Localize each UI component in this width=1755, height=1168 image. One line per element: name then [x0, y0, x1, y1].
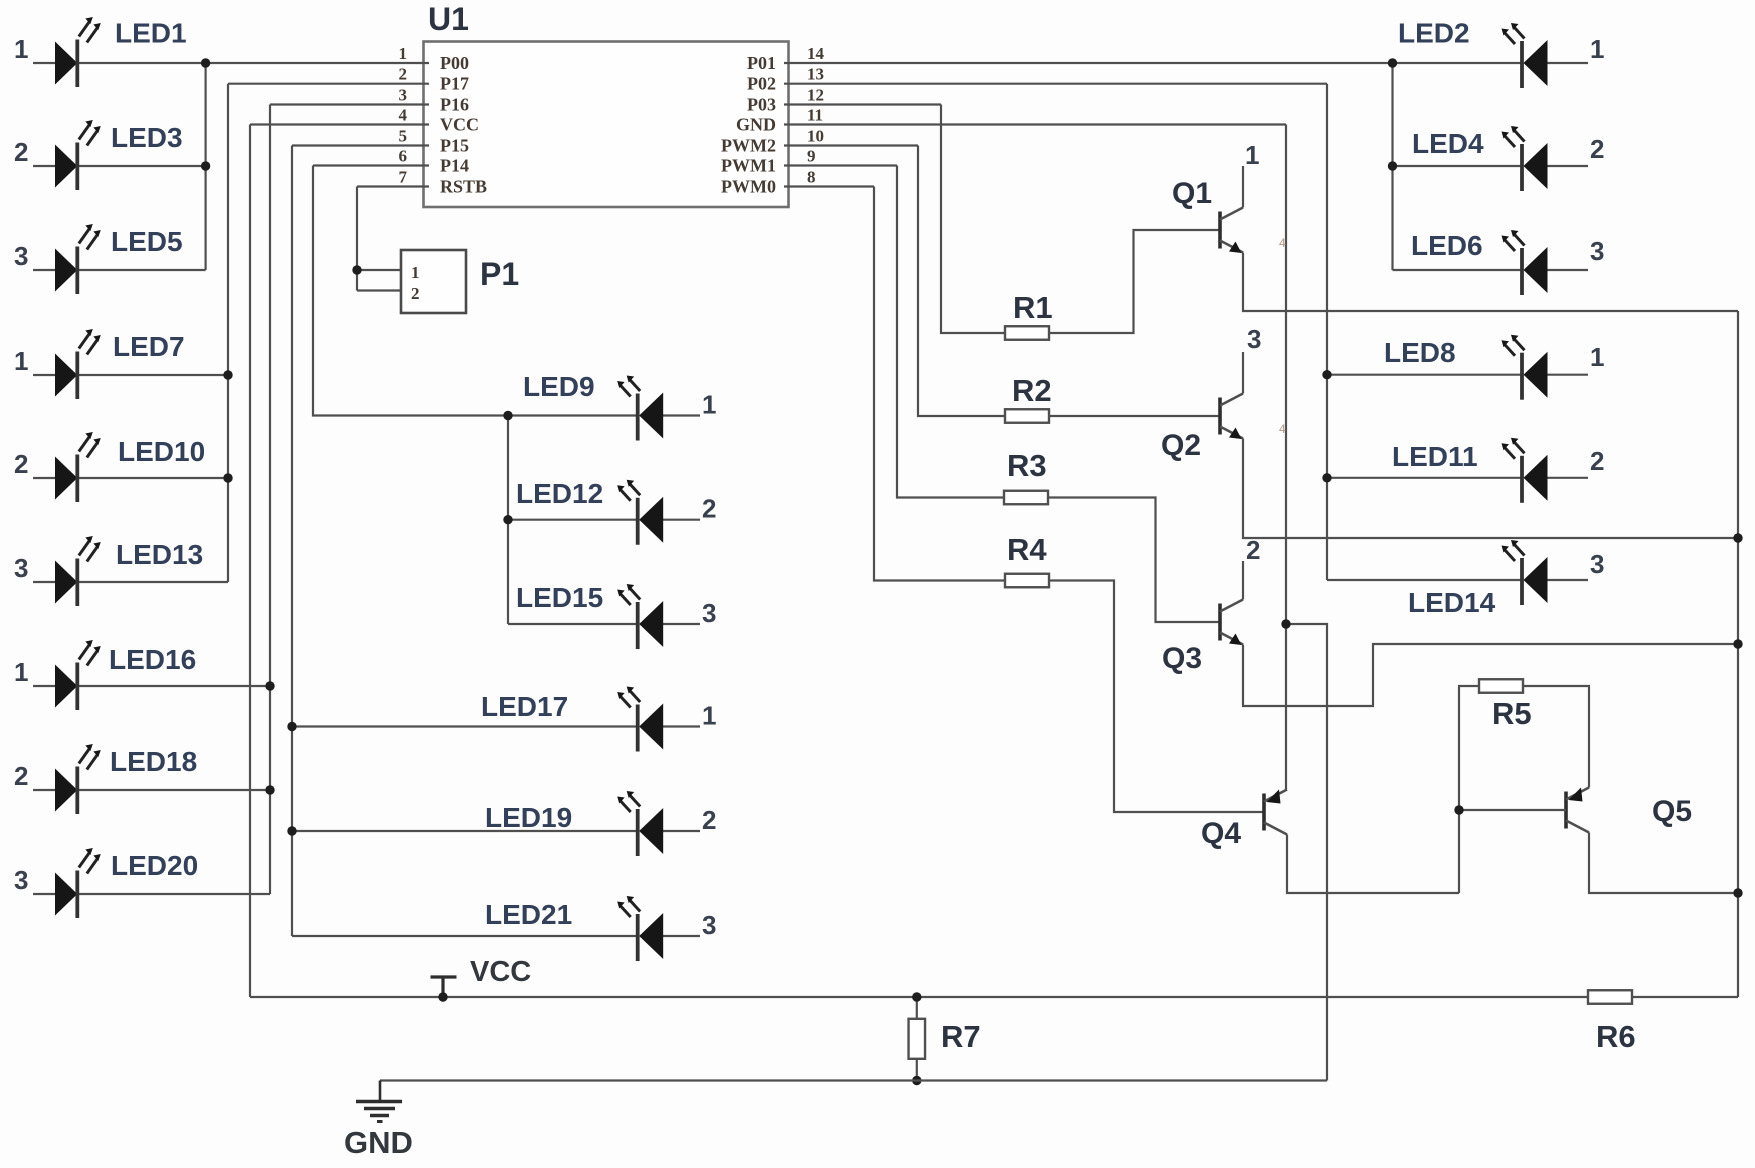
- wire LED16 anode lead: [33, 685, 55, 687]
- wire LED4 cathode from bus: [1393, 165, 1523, 167]
- svg-text:R6: R6: [1596, 1019, 1636, 1054]
- svg-text:9: 9: [807, 147, 816, 166]
- wire right rail vertical: [1737, 311, 1739, 997]
- svg-text:R2: R2: [1012, 373, 1052, 408]
- svg-text:P17: P17: [440, 74, 469, 94]
- svg-text:P00: P00: [440, 53, 469, 73]
- svg-text:P15: P15: [440, 136, 469, 156]
- svg-text:LED5: LED5: [111, 226, 183, 257]
- svg-text:8: 8: [807, 168, 816, 187]
- ground symbol GND: [356, 1081, 402, 1122]
- svg-text:5: 5: [399, 127, 408, 146]
- wire U1 pin6 P14 stub: [313, 164, 429, 166]
- wire U1 pin7 RSTB stub: [357, 185, 429, 187]
- wire Q3 emitter down right up right to rail: [1243, 644, 1738, 706]
- wire LED1 anode lead: [33, 62, 55, 64]
- wire LED13 cathode to bus: [77, 581, 228, 583]
- LED LED9 (left-pointing diode with rays): [617, 376, 663, 441]
- wire LED3 anode lead: [33, 165, 55, 167]
- wire LED2 cathode from bus: [1393, 62, 1523, 64]
- wire Q4 collector down and right to Q5 base node: [1287, 835, 1459, 894]
- svg-text:3: 3: [702, 910, 716, 940]
- LED LED20 (right-pointing diode with rays): [55, 848, 101, 918]
- LED LED6 (left-pointing diode with rays): [1502, 230, 1548, 295]
- wire LED15 cathode from bus: [508, 623, 638, 625]
- wire Q1 emitter down and right to right rail: [1243, 253, 1738, 312]
- LED LED2 (left-pointing diode with rays): [1502, 23, 1548, 88]
- wire LED7 anode lead: [33, 374, 55, 376]
- wire LED6 anode lead: [1548, 269, 1589, 271]
- wire U1 pin1 P00 stub to LED1 junction: [206, 62, 429, 64]
- svg-text:R7: R7: [941, 1019, 981, 1054]
- svg-text:PWM2: PWM2: [721, 136, 776, 156]
- resistor R5 body: [1479, 679, 1523, 693]
- resistor R6 body: [1588, 990, 1632, 1004]
- svg-text:R4: R4: [1007, 532, 1047, 567]
- resistor R7 body (vertical): [909, 1019, 926, 1059]
- LED LED11 (left-pointing diode with rays): [1502, 438, 1548, 503]
- svg-text:1: 1: [14, 346, 28, 376]
- wire RSTB bus down to P1: [356, 187, 358, 291]
- wire LED7 cathode to bus: [77, 374, 228, 376]
- wire PWM2 bus down to R2 left: [918, 146, 1005, 417]
- svg-text:P14: P14: [440, 156, 469, 176]
- wire R7 bottom lead: [916, 1059, 918, 1081]
- wire LED12 anode lead: [663, 519, 700, 521]
- svg-text:P01: P01: [747, 53, 776, 73]
- svg-text:LED6: LED6: [1411, 230, 1483, 261]
- junction LED12/bus: [503, 515, 512, 524]
- wire LED2 anode lead: [1548, 62, 1589, 64]
- svg-text:2: 2: [1590, 446, 1604, 476]
- svg-text:P03: P03: [747, 95, 776, 115]
- wire LED20 cathode to bus: [77, 893, 270, 895]
- wire LED8 anode lead: [1548, 374, 1589, 376]
- wire R4 right to Q4 base: [1049, 581, 1264, 813]
- junction Q5 base / R5 node: [1454, 805, 1463, 814]
- svg-text:Q2: Q2: [1161, 429, 1201, 462]
- wire Q1 collector up to terminal 1: [1242, 166, 1244, 208]
- wire PWM0 bus down to R4 left: [874, 187, 1005, 581]
- wire LED17 anode lead: [663, 725, 700, 727]
- wire Q3 collector up to net 2 wire: [1242, 561, 1244, 600]
- LED LED12 (left-pointing diode with rays): [617, 480, 663, 545]
- svg-text:LED14: LED14: [1408, 587, 1496, 618]
- junction LED9/bus: [503, 411, 512, 420]
- svg-text:LED19: LED19: [485, 802, 572, 833]
- resistor R3 body: [1004, 491, 1048, 505]
- resistor R1 body: [1005, 326, 1049, 340]
- wire P01 cathode bus (LED2/4/6): [1391, 63, 1393, 270]
- wire U1 pin12 P03 stub: [784, 103, 941, 105]
- wire LED18 anode lead: [33, 789, 55, 791]
- svg-text:10: 10: [807, 127, 824, 146]
- svg-text:LED15: LED15: [516, 582, 603, 613]
- svg-text:GND: GND: [736, 115, 776, 135]
- svg-text:LED8: LED8: [1384, 337, 1456, 368]
- svg-text:R3: R3: [1007, 448, 1047, 483]
- junction GND bus branch: [1281, 619, 1290, 628]
- transistor Q2 (NPN): [1220, 394, 1243, 440]
- wire LED16 cathode to bus: [77, 685, 270, 687]
- junction rail / Q3 emitter net: [1733, 639, 1742, 648]
- junction LED11/bus: [1322, 473, 1331, 482]
- svg-text:12: 12: [807, 86, 824, 105]
- wire Q5 base node vertical up to R5 left: [1459, 686, 1479, 893]
- svg-text:1: 1: [399, 44, 408, 63]
- wire R2 right to Q2 base: [1049, 415, 1220, 417]
- transistor Q5 (PNP, emitter up): [1566, 788, 1589, 833]
- svg-text:1: 1: [1590, 34, 1604, 64]
- svg-text:R1: R1: [1013, 290, 1053, 325]
- junction R7 bottom / GND rail: [912, 1076, 921, 1085]
- svg-text:4: 4: [1279, 236, 1286, 250]
- svg-text:Q3: Q3: [1162, 642, 1202, 675]
- svg-text:VCC: VCC: [470, 956, 531, 988]
- svg-text:LED16: LED16: [109, 644, 196, 675]
- junction LED10/bus: [223, 473, 232, 482]
- wire GND bus down to Q4 emitter: [1285, 125, 1287, 790]
- svg-text:3: 3: [399, 86, 408, 105]
- wire LED3 cathode to bus: [77, 165, 205, 167]
- wire LED12 cathode from bus: [508, 519, 638, 521]
- transistor Q3 (NPN): [1220, 600, 1243, 646]
- svg-text:LED7: LED7: [113, 331, 185, 362]
- svg-text:14: 14: [807, 44, 825, 63]
- wire LED15 anode lead: [663, 623, 700, 625]
- svg-text:3: 3: [1590, 236, 1604, 266]
- svg-text:1: 1: [702, 390, 716, 420]
- svg-text:11: 11: [807, 106, 823, 125]
- wire P15 cathode bus (LED17/19/21): [291, 146, 293, 937]
- svg-text:3: 3: [14, 241, 28, 271]
- svg-text:LED17: LED17: [481, 691, 568, 722]
- transistor Q4 (PNP, emitter up): [1264, 790, 1287, 835]
- resistor R2 body: [1005, 409, 1049, 423]
- wire LED5 anode lead: [33, 269, 55, 271]
- svg-text:2: 2: [702, 494, 716, 524]
- LED LED18 (right-pointing diode with rays): [55, 744, 101, 814]
- wire LED10 anode lead: [33, 477, 55, 479]
- svg-text:P02: P02: [747, 74, 776, 94]
- junction rail / Q5 collector net: [1733, 888, 1742, 897]
- wire LED18 cathode to bus: [77, 789, 270, 791]
- svg-text:VCC: VCC: [440, 115, 479, 135]
- wire LED6 cathode from bus: [1393, 269, 1523, 271]
- wire LED5 cathode to bus: [77, 269, 205, 271]
- wire GND branch to bottom rail: [1286, 624, 1327, 1081]
- junction LED4/bus: [1388, 161, 1397, 170]
- junction LED8/bus: [1322, 370, 1331, 379]
- svg-text:1: 1: [411, 263, 420, 282]
- junction LED18/bus: [265, 785, 274, 794]
- junction LED7/bus: [223, 370, 232, 379]
- wire LED13 anode lead: [33, 581, 55, 583]
- wire U1 pin4 VCC stub: [250, 123, 429, 125]
- svg-text:LED18: LED18: [110, 746, 197, 777]
- junction LED1/bus: [201, 58, 210, 67]
- wire P02 cathode bus (LED8/11/14): [1326, 84, 1328, 580]
- wire LED10 cathode to bus: [77, 477, 228, 479]
- junction LED17/bus: [287, 722, 296, 731]
- wire P1 pin2 stub: [357, 289, 401, 291]
- wire U1 pin2 P17 stub: [228, 83, 429, 85]
- wire VCC bus down to VCC rail: [249, 125, 251, 998]
- wire U1 pin14 P01 stub to LED2 junction: [784, 62, 1393, 64]
- svg-text:Q1: Q1: [1172, 177, 1212, 210]
- svg-text:Q5: Q5: [1652, 795, 1692, 828]
- svg-text:2: 2: [411, 284, 420, 303]
- wire U1 pin3 P16 stub: [270, 103, 429, 105]
- svg-text:3: 3: [1590, 549, 1604, 579]
- LED LED10 (right-pointing diode with rays): [55, 432, 101, 502]
- svg-text:4: 4: [1279, 422, 1286, 436]
- wire U1 pin13 P02 stub: [784, 83, 1327, 85]
- LED LED16 (right-pointing diode with rays): [55, 640, 101, 710]
- svg-text:R5: R5: [1492, 696, 1532, 731]
- LED LED21 (left-pointing diode with rays): [617, 896, 663, 961]
- svg-text:1: 1: [1590, 342, 1604, 372]
- svg-text:2: 2: [14, 449, 28, 479]
- LED LED8 (left-pointing diode with rays): [1502, 335, 1548, 400]
- svg-text:7: 7: [399, 168, 408, 187]
- LED LED19 (left-pointing diode with rays): [617, 791, 663, 856]
- transistor Q1 (NPN): [1220, 208, 1243, 254]
- svg-text:1: 1: [14, 34, 28, 64]
- wire R5 right down to Q5 emitter: [1524, 686, 1590, 788]
- LED LED15 (left-pointing diode with rays): [617, 584, 663, 649]
- junction RSTB to P1 pin1: [352, 265, 361, 274]
- wire U1 pin5 P15 stub: [292, 144, 429, 146]
- IC U1 body: [424, 42, 789, 208]
- svg-text:3: 3: [14, 553, 28, 583]
- junction VCC symbol tap: [438, 992, 447, 1001]
- wire Q2 emitter down and right to right rail: [1243, 439, 1738, 539]
- svg-text:PWM1: PWM1: [721, 156, 776, 176]
- svg-text:3: 3: [1247, 324, 1261, 354]
- LED LED7 (right-pointing diode with rays): [55, 329, 101, 399]
- wire LED11 cathode from bus: [1327, 477, 1522, 479]
- wire bottom GND rail: [380, 1079, 1327, 1081]
- wire R1 right to Q1 base: [1049, 230, 1220, 333]
- LED LED13 (right-pointing diode with rays): [55, 536, 101, 606]
- svg-text:3: 3: [14, 865, 28, 895]
- wire P14 bus down and right to LED9 group: [313, 166, 508, 416]
- wire LED11 anode lead: [1548, 477, 1589, 479]
- svg-text:6: 6: [399, 147, 408, 166]
- wire PWM1 bus down to R3 left: [897, 166, 1004, 498]
- svg-text:LED21: LED21: [485, 899, 572, 930]
- svg-text:LED3: LED3: [111, 122, 183, 153]
- LED LED3 (right-pointing diode with rays): [55, 120, 101, 190]
- junction LED19/bus: [287, 826, 296, 835]
- LED LED5 (right-pointing diode with rays): [55, 224, 101, 294]
- svg-text:PWM0: PWM0: [721, 177, 776, 197]
- junction R7 top / VCC rail: [912, 992, 921, 1001]
- svg-text:LED4: LED4: [1412, 128, 1484, 159]
- svg-text:P1: P1: [480, 256, 519, 292]
- power symbol VCC: [431, 977, 457, 997]
- svg-text:RSTB: RSTB: [440, 177, 487, 197]
- wire P00 cathode bus (LED1/3/5): [205, 63, 207, 270]
- wire U1 pin8 PWM0 stub: [784, 185, 874, 187]
- wire R7 top lead: [916, 997, 918, 1019]
- svg-text:2: 2: [14, 761, 28, 791]
- wire R3 right to Q3 base: [1048, 498, 1220, 623]
- svg-text:LED1: LED1: [115, 18, 187, 49]
- LED LED17 (left-pointing diode with rays): [617, 687, 663, 752]
- wire LED17 cathode from bus: [292, 725, 638, 727]
- svg-text:1: 1: [702, 701, 716, 731]
- wire U1 pin10 PWM2 stub: [784, 144, 918, 146]
- wire LED19 anode lead: [663, 830, 700, 832]
- svg-text:LED9: LED9: [523, 371, 595, 402]
- wire Q5 base wire: [1459, 809, 1566, 811]
- wire LED21 cathode from bus: [292, 935, 638, 937]
- wire P17 cathode bus (LED7/10/13): [227, 84, 229, 582]
- wire LED9 cathode from bus: [508, 414, 638, 416]
- wire LED4 anode lead: [1548, 165, 1589, 167]
- svg-text:LED2: LED2: [1398, 18, 1470, 49]
- wire LED14 anode lead: [1548, 579, 1589, 581]
- wire U1 pin9 PWM1 stub: [784, 164, 897, 166]
- wire LED9/12/15 cathode bus: [507, 416, 509, 625]
- wire U1 pin11 GND stub: [784, 123, 1286, 125]
- svg-text:3: 3: [702, 598, 716, 628]
- connector P1 body: [401, 250, 466, 313]
- wire Q5 collector down and right to rail: [1589, 833, 1738, 894]
- wire LED9 anode lead: [663, 414, 700, 416]
- wire LED14 cathode from bus: [1327, 579, 1522, 581]
- junction LED16/bus: [265, 681, 274, 690]
- svg-text:LED13: LED13: [116, 539, 203, 570]
- svg-text:2: 2: [1246, 535, 1260, 565]
- svg-text:2: 2: [1590, 134, 1604, 164]
- wire P03 bus down to R1 left: [941, 105, 1005, 334]
- LED LED14 (left-pointing diode with rays): [1502, 540, 1548, 605]
- wire LED19 cathode from bus: [292, 830, 638, 832]
- svg-text:P16: P16: [440, 95, 469, 115]
- junction rail / Q2 emitter net: [1733, 533, 1742, 542]
- wire Q2 collector up to terminal 3: [1242, 352, 1244, 394]
- svg-text:LED12: LED12: [516, 478, 603, 509]
- svg-text:13: 13: [807, 65, 824, 84]
- svg-text:2: 2: [702, 805, 716, 835]
- wire P1 pin1 stub: [357, 269, 401, 271]
- svg-text:U1: U1: [428, 1, 469, 37]
- LED LED4 (left-pointing diode with rays): [1502, 126, 1548, 191]
- svg-text:LED20: LED20: [111, 850, 198, 881]
- junction LED3/bus: [201, 161, 210, 170]
- wire VCC rail left of R6: [250, 996, 1588, 998]
- resistor R4 body: [1005, 574, 1049, 588]
- svg-text:LED10: LED10: [118, 436, 205, 467]
- svg-text:2: 2: [14, 137, 28, 167]
- svg-text:GND: GND: [344, 1125, 413, 1160]
- wire P16 cathode bus (LED16/18/20): [269, 105, 271, 895]
- svg-text:4: 4: [399, 106, 408, 125]
- junction LED2/bus: [1388, 58, 1397, 67]
- wire R6 right to rail corner: [1632, 996, 1738, 998]
- LED LED1 (right-pointing diode with rays): [55, 17, 101, 87]
- svg-text:LED11: LED11: [1392, 441, 1478, 472]
- svg-text:2: 2: [399, 65, 408, 84]
- wire LED20 anode lead: [33, 893, 55, 895]
- wire LED1 cathode to bus: [77, 62, 205, 64]
- wire LED21 anode lead: [663, 935, 700, 937]
- wire LED8 cathode from bus: [1327, 374, 1522, 376]
- svg-text:1: 1: [1245, 140, 1259, 170]
- svg-text:Q4: Q4: [1201, 817, 1241, 850]
- svg-text:1: 1: [14, 657, 28, 687]
